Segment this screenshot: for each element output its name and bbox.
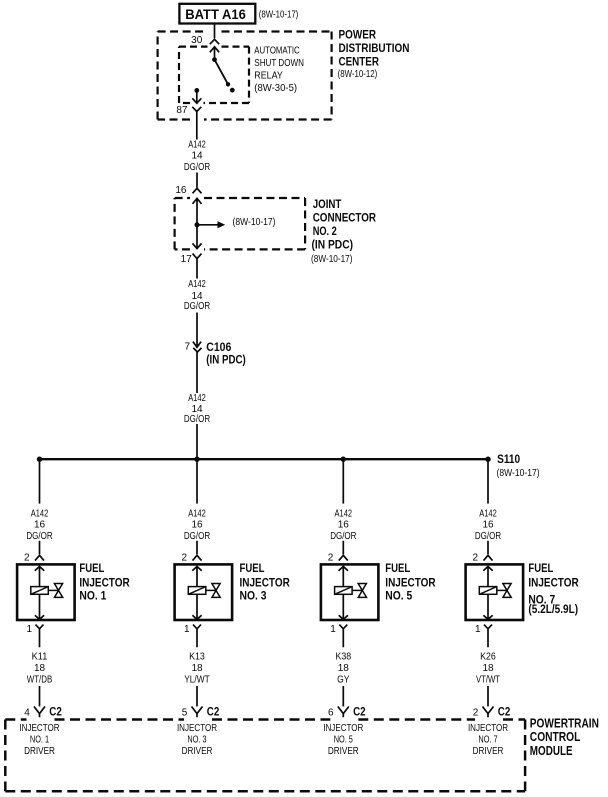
svg-text:(IN PDC): (IN PDC) xyxy=(206,352,246,366)
svg-text:14: 14 xyxy=(191,151,203,162)
svg-text:CENTER: CENTER xyxy=(339,55,380,69)
svg-text:INJECTOR: INJECTOR xyxy=(528,575,579,589)
svg-text:K11: K11 xyxy=(32,652,48,663)
svg-text:C2: C2 xyxy=(49,704,62,718)
svg-text:INJECTOR: INJECTOR xyxy=(19,723,59,734)
svg-text:DG/OR: DG/OR xyxy=(184,301,210,312)
svg-text:CONNECTOR: CONNECTOR xyxy=(313,210,377,224)
svg-text:NO. 3: NO. 3 xyxy=(240,589,267,603)
svg-text:NO. 1: NO. 1 xyxy=(30,735,50,746)
svg-text:(8W-10-17): (8W-10-17) xyxy=(311,254,353,265)
svg-text:(8W-10-17): (8W-10-17) xyxy=(497,468,540,479)
svg-text:INJECTOR: INJECTOR xyxy=(240,575,291,589)
svg-text:87: 87 xyxy=(176,105,188,116)
svg-text:INJECTOR: INJECTOR xyxy=(79,575,130,589)
svg-text:GY: GY xyxy=(337,674,350,685)
svg-text:NO. 1: NO. 1 xyxy=(79,589,106,603)
svg-text:K26: K26 xyxy=(480,652,496,663)
svg-text:(5.2L/5.9L): (5.2L/5.9L) xyxy=(528,602,578,616)
svg-text:K13: K13 xyxy=(189,652,205,663)
svg-text:A142: A142 xyxy=(188,279,206,290)
svg-text:A142: A142 xyxy=(188,393,206,404)
svg-text:C2: C2 xyxy=(498,704,511,718)
svg-text:C2: C2 xyxy=(353,704,366,718)
svg-text:DRIVER: DRIVER xyxy=(473,746,504,757)
svg-text:18: 18 xyxy=(482,663,494,674)
svg-text:MODULE: MODULE xyxy=(530,743,573,758)
svg-text:C2: C2 xyxy=(207,704,220,718)
svg-text:DG/OR: DG/OR xyxy=(184,414,210,425)
svg-text:JOINT: JOINT xyxy=(313,197,342,211)
svg-text:K38: K38 xyxy=(335,652,351,663)
svg-text:RELAY: RELAY xyxy=(254,70,282,82)
svg-text:5: 5 xyxy=(182,708,188,719)
svg-text:18: 18 xyxy=(338,663,350,674)
svg-text:INJECTOR: INJECTOR xyxy=(468,723,508,734)
svg-text:NO. 7: NO. 7 xyxy=(478,735,498,746)
svg-text:CONTROL: CONTROL xyxy=(530,729,581,744)
svg-text:INJECTOR: INJECTOR xyxy=(177,723,217,734)
svg-text:AUTOMATIC: AUTOMATIC xyxy=(254,45,300,57)
svg-text:NO. 5: NO. 5 xyxy=(385,589,412,603)
svg-text:FUEL: FUEL xyxy=(240,561,265,575)
svg-text:INJECTOR: INJECTOR xyxy=(323,723,363,734)
svg-text:FUEL: FUEL xyxy=(528,561,553,575)
svg-text:DISTRIBUTION: DISTRIBUTION xyxy=(339,41,410,55)
svg-text:(8W-10-12): (8W-10-12) xyxy=(338,68,378,80)
svg-text:6: 6 xyxy=(328,708,334,719)
svg-text:18: 18 xyxy=(191,663,203,674)
svg-text:A142: A142 xyxy=(188,139,206,150)
svg-text:S110: S110 xyxy=(497,452,520,466)
svg-text:WT/DB: WT/DB xyxy=(27,674,53,685)
svg-text:BATT A16: BATT A16 xyxy=(185,6,246,22)
svg-text:(IN PDC): (IN PDC) xyxy=(312,238,354,252)
svg-text:DRIVER: DRIVER xyxy=(328,746,359,757)
svg-text:POWERTRAIN: POWERTRAIN xyxy=(530,715,599,730)
svg-text:(8W-10-17): (8W-10-17) xyxy=(233,217,276,228)
svg-text:NO. 2: NO. 2 xyxy=(313,224,337,238)
svg-text:2: 2 xyxy=(473,708,479,719)
svg-text:(8W-30-5): (8W-30-5) xyxy=(254,82,297,94)
svg-text:FUEL: FUEL xyxy=(79,561,104,575)
svg-text:NO. 3: NO. 3 xyxy=(187,735,207,746)
svg-text:DG/OR: DG/OR xyxy=(184,162,210,173)
svg-text:18: 18 xyxy=(34,663,46,674)
svg-text:YL/WT: YL/WT xyxy=(184,674,210,685)
svg-text:30: 30 xyxy=(191,35,203,46)
svg-text:POWER: POWER xyxy=(339,28,377,42)
svg-text:7: 7 xyxy=(184,342,190,353)
svg-text:SHUT DOWN: SHUT DOWN xyxy=(254,57,304,69)
svg-text:DRIVER: DRIVER xyxy=(182,746,213,757)
svg-text:NO. 5: NO. 5 xyxy=(334,735,354,746)
svg-text:DRIVER: DRIVER xyxy=(24,746,55,757)
svg-text:VT/WT: VT/WT xyxy=(476,674,500,685)
svg-text:INJECTOR: INJECTOR xyxy=(385,575,436,589)
svg-text:17: 17 xyxy=(181,254,193,265)
svg-text:(8W-10-17): (8W-10-17) xyxy=(259,8,299,20)
svg-text:16: 16 xyxy=(175,185,187,196)
svg-text:FUEL: FUEL xyxy=(385,561,410,575)
svg-text:4: 4 xyxy=(24,708,30,719)
